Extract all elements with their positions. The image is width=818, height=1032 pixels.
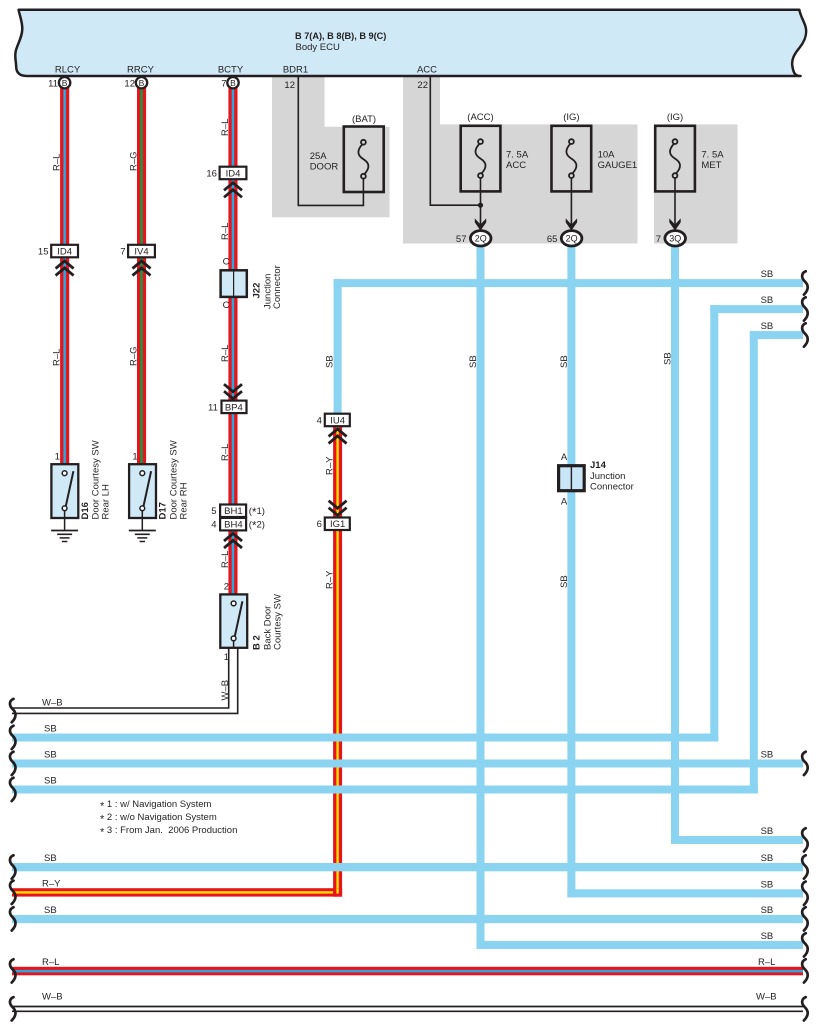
junction dot ACC [478,203,483,208]
svg-text:SB: SB [761,750,774,761]
connector IG1 pin6 [317,518,350,531]
switch D17 Door Courtesy SW Rear RH [129,440,189,530]
svg-text:R–L: R–L [220,551,231,568]
svg-text:Body ECU: Body ECU [296,42,340,53]
connector IU4 pin4 [317,414,350,427]
svg-text:57: 57 [456,234,467,245]
break SB left y737 [10,726,16,749]
svg-text:ID4: ID4 [57,247,72,258]
ground below D16 [51,531,78,542]
svg-text:R–Y: R–Y [42,879,61,890]
svg-text:W–B: W–B [42,698,63,709]
svg-text:A: A [561,452,568,463]
svg-text:W–B: W–B [42,992,63,1003]
wire SB vertical ACC x480.5 [477,246,485,949]
wire W-B horizontal bottom y1009 [12,1007,803,1012]
wire BDR1 pin12 to fuse DOOR [298,77,363,205]
svg-text:7. 5A: 7. 5A [506,150,529,161]
break SB right y919 [802,907,808,930]
svg-text:D16: D16 [80,502,91,519]
svg-text:B 7(A), B 8(B), B 9(C): B 7(A), B 8(B), B 9(C) [295,31,386,41]
svg-text:C: C [223,256,230,267]
wire fuse GAUGE1 down to oval 2Q [570,178,572,231]
svg-text:B 2: B 2 [252,635,263,650]
switch B2 Back Door Courtesy SW [220,582,283,663]
break SB right y283 [802,271,808,294]
svg-text:10A: 10A [598,150,616,161]
svg-text:IU4: IU4 [330,416,345,427]
break SB right y867 [802,855,808,878]
wire SB horizontal GAUGE1 bend y893 to right break [567,889,803,897]
wire SB horizontal y335 to right break [750,331,803,339]
svg-text:R–Y: R–Y [325,456,336,475]
svg-text:SB: SB [761,295,774,306]
svg-text:ID4: ID4 [226,169,241,180]
wire SB horizontal y763.5 full width [12,760,803,768]
svg-text:Connector: Connector [590,482,634,493]
oval 3Q pin7 [656,231,686,246]
svg-text:15: 15 [38,247,49,258]
wire SB horizontal MET bend y840 to right break [671,836,803,844]
wire R-Y horizontal bottom left [12,888,342,896]
wire fuse MET down to oval 3Q [674,178,676,231]
svg-text:(ACC): (ACC) [467,112,493,123]
svg-text:12: 12 [124,79,135,90]
svg-text:R–L: R–L [52,154,63,171]
fuse 10A GAUGE1 (IG) [552,112,638,191]
wire R-Y vertical IU4 to IG1 and down to bend [333,427,342,897]
pin 11 B RLCY [48,77,70,90]
break SB right y763 [802,752,808,775]
break SB right y893 [802,882,808,905]
relay block MET gray area [654,124,738,243]
connector BH1 pin5 [211,505,265,520]
svg-text:GAUGE1: GAUGE1 [598,160,638,171]
svg-text:1: 1 [224,652,229,663]
wire SB vertical GAUGE1 x571.4 [567,246,575,898]
svg-text:SB: SB [559,355,570,368]
svg-text:7: 7 [221,79,226,90]
svg-text:(BAT): (BAT) [352,114,376,125]
svg-text:SB: SB [761,269,774,280]
break SB right y309 [802,297,808,320]
svg-text:SB: SB [761,879,774,890]
wire SB horizontal y283 to right break [334,279,803,287]
svg-text:R–G: R–G [129,346,140,366]
svg-text:RLCY: RLCY [55,65,81,76]
svg-text:W–B: W–B [220,680,231,701]
break W-B right y1009 [802,997,808,1020]
svg-text:22: 22 [417,80,428,91]
svg-text:16: 16 [206,169,217,180]
svg-text:J14: J14 [590,460,607,471]
svg-text:R–Y: R–Y [325,570,336,589]
svg-text:12: 12 [284,80,295,91]
wire SB horizontal ACC bend y945 to right break [477,941,804,949]
wire SB horizontal y737.5 from left [12,734,718,742]
break SB left y919 [10,907,16,930]
svg-text:(IG): (IG) [667,112,683,123]
chevron down above IG1 [329,501,347,516]
svg-text:SB: SB [761,321,774,332]
svg-text:W–B: W–B [756,992,777,1003]
svg-text:R–L: R–L [220,345,231,362]
switch D16 Door Courtesy SW Rear LH [51,440,111,530]
wire BCTY R-L vertical [228,87,237,595]
svg-text:6: 6 [317,519,322,530]
svg-text:RRCY: RRCY [127,65,155,76]
break R-Y left y892 [10,881,16,904]
svg-text:4: 4 [317,416,322,427]
svg-text:7. 5A: 7. 5A [701,150,724,161]
wire SB vertical to IU4 [334,279,342,413]
svg-text:R–L: R–L [220,223,231,240]
svg-text:7: 7 [656,234,661,245]
wire SB horizontal y789.5 from left [12,786,758,794]
svg-text:SB: SB [44,776,57,787]
svg-text:IV4: IV4 [134,247,148,258]
svg-text:SB: SB [559,575,570,588]
break W-B left y1009 [10,997,16,1020]
chevron up below BH4 [224,534,242,549]
svg-text:A: A [561,497,568,508]
svg-text:J22: J22 [252,283,263,299]
svg-text:BH1: BH1 [224,506,242,517]
svg-text:2: 2 [224,582,229,593]
svg-text:(IG): (IG) [563,112,579,123]
svg-text:11: 11 [48,79,58,90]
relay block ACC gray area [403,76,638,244]
svg-text:DOOR: DOOR [310,162,339,173]
break SB left y763 [10,752,16,775]
svg-text:SB: SB [44,905,57,916]
svg-text:SB: SB [44,724,57,735]
svg-text:BH4: BH4 [224,520,242,531]
break SB right y840 [802,828,808,851]
wire fuse ACC down to oval 2Q [480,178,482,231]
svg-text:SB: SB [761,853,774,864]
svg-text:Rear RH: Rear RH [178,482,189,519]
svg-text:R–L: R–L [220,444,231,461]
break SB left y789 [10,778,16,801]
svg-text:BDR1: BDR1 [283,65,308,76]
break R-L left y971 [10,959,16,982]
fuse 7.5A MET (IG) [655,112,724,191]
svg-text:7: 7 [120,247,125,258]
svg-text:B: B [139,78,145,88]
wire R-L horizontal bottom y971 [12,967,803,976]
wire RLCY R-L vertical [60,87,69,465]
arrow into 2Q ACC [475,218,486,230]
wire SB vertical x753.8 [750,331,758,793]
chevron up below ID4 pin15 [56,261,74,276]
svg-text:SB: SB [44,853,57,864]
wire RRCY R-G vertical [137,87,146,465]
svg-text:3Q: 3Q [669,234,681,244]
pin 12 B RRCY [124,77,147,90]
NOTES [100,799,237,839]
svg-text:Junction: Junction [590,471,625,482]
svg-text:R–L: R–L [52,349,63,366]
svg-text:R–G: R–G [129,151,140,171]
wire W-B from B2 switch down and left [12,648,238,714]
connector BP4 pin11 [208,384,246,413]
chevron up below IV4 [133,261,151,276]
svg-text:MET: MET [701,160,721,171]
fuse 25A DOOR (BAT) [310,114,384,192]
svg-text:1: 1 [132,452,137,463]
svg-text:SB: SB [761,905,774,916]
junction connector J14 [559,452,634,508]
connector ID4 pin16 [206,167,246,180]
oval 2Q pin65 [547,231,582,246]
ECU banner Body ECU [15,10,806,76]
svg-text:D17: D17 [158,502,169,519]
svg-text:4: 4 [211,520,216,531]
svg-text:R–L: R–L [758,957,775,968]
svg-text:11: 11 [208,403,218,414]
connector IV4 pin7 [120,245,155,258]
junction connector J22 [221,256,283,311]
fuse 7.5A ACC (ACC) [461,112,529,191]
svg-text:SB: SB [468,355,479,368]
relay block BDR1 gray area [272,76,390,217]
svg-text:B: B [62,78,68,88]
wire ACC pin22 to junction [430,77,480,205]
svg-text:SB: SB [663,352,674,365]
break SB right y945 [802,933,808,956]
svg-text:Rear LH: Rear LH [101,484,112,520]
svg-text:SB: SB [761,931,774,942]
break R-L right y971 [802,959,808,982]
break SB right y335 [802,323,808,346]
break W-B left top [10,699,16,722]
wire SB horizontal y309 to right break [710,305,803,313]
svg-text:2Q: 2Q [475,234,487,244]
ground below D17 [129,531,156,542]
svg-text:IG1: IG1 [330,519,345,530]
svg-text:5: 5 [211,506,216,517]
svg-text:Connector: Connector [272,265,283,309]
svg-text:1: 1 [55,452,60,463]
svg-text:B: B [230,78,236,88]
break SB left y867 [10,855,16,878]
svg-text:BCTY: BCTY [218,65,244,76]
svg-text:SB: SB [325,355,336,368]
connector BH4 pin4 [211,518,265,533]
connector ID4 pin15 [38,245,78,258]
chevron up below ID4 pin16 [224,183,242,198]
oval 2Q pin57 [456,231,491,246]
svg-text:SB: SB [44,750,57,761]
svg-text:Courtesy SW: Courtesy SW [272,594,283,650]
wire SB horizontal y919 full width [12,915,803,923]
svg-text:SB: SB [761,826,774,837]
wire SB vertical x714.3 [710,305,718,741]
svg-text:ACC: ACC [417,65,437,76]
svg-text:65: 65 [547,234,558,245]
arrow into 2Q GAUGE1 [566,218,577,230]
svg-text:BP4: BP4 [225,403,243,414]
wire SB vertical MET x675 [671,246,679,844]
svg-text:2Q: 2Q [566,234,578,244]
svg-text:C: C [223,300,230,311]
wire SB horizontal y867 full width [12,863,803,871]
svg-text:ACC: ACC [506,160,526,171]
chevron up below IU4 [329,429,347,444]
pin 7 B BCTY [221,77,238,90]
svg-text:R–L: R–L [42,957,59,968]
svg-text:R–L: R–L [220,119,231,136]
svg-text:25A: 25A [310,151,328,162]
arrow into 3Q MET [669,218,680,230]
